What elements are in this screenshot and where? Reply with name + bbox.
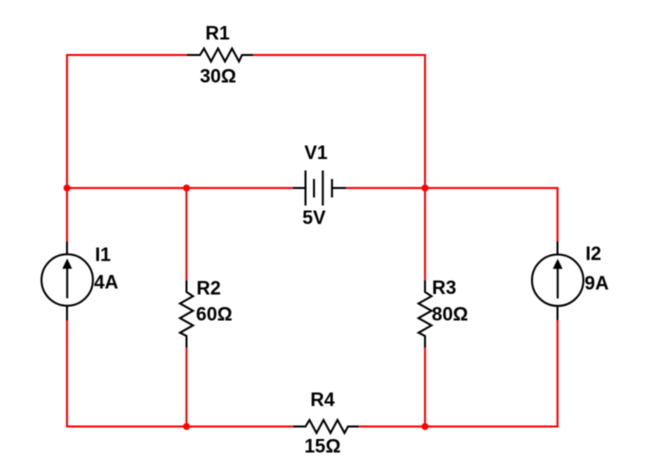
wire left vertical lower <box>66 320 68 428</box>
svg-text:R2: R2 <box>197 279 221 300</box>
wire bottom-left segment <box>66 426 294 428</box>
svg-text:80Ω: 80Ω <box>432 305 468 326</box>
current source I2 <box>532 242 583 321</box>
svg-text:R1: R1 <box>205 24 230 45</box>
resistor R1 <box>187 49 253 62</box>
wire inner-right vertical middle <box>424 188 426 282</box>
wire middle-left segment <box>66 187 294 189</box>
wire R2 branch lower <box>186 348 188 428</box>
resistor R2 <box>180 281 193 349</box>
battery V1 <box>293 171 346 206</box>
svg-text:30Ω: 30Ω <box>200 67 236 88</box>
svg-text:5V: 5V <box>302 208 326 229</box>
svg-text:R3: R3 <box>432 278 456 299</box>
wire bottom-right segment <box>359 426 559 428</box>
junction node R2 top <box>183 185 190 192</box>
svg-text:9A: 9A <box>585 274 610 295</box>
wire R2 branch upper <box>186 188 188 282</box>
junction node R3 top <box>422 185 429 192</box>
current source I1 <box>41 242 92 321</box>
wire left vertical upper <box>66 54 68 242</box>
svg-text:15Ω: 15Ω <box>304 437 340 458</box>
junction node R2 bottom <box>183 423 190 430</box>
wire top-right segment <box>252 54 426 56</box>
resistor R3 <box>419 281 432 349</box>
wire top-left segment <box>66 54 188 56</box>
junction node R3 bottom <box>422 423 429 430</box>
svg-text:I2: I2 <box>586 244 602 265</box>
junction node left-middle <box>64 185 71 192</box>
svg-text:V1: V1 <box>304 143 328 164</box>
svg-text:4A: 4A <box>94 273 119 294</box>
wire inner-right vertical upper <box>424 54 426 188</box>
svg-text:R4: R4 <box>310 390 335 411</box>
wire far-right vertical upper <box>557 187 559 242</box>
wire inner-right vertical lower <box>424 348 426 428</box>
svg-text:I1: I1 <box>95 245 111 266</box>
svg-text:60Ω: 60Ω <box>196 305 232 326</box>
resistor R4 <box>293 420 359 433</box>
wire middle-right segment <box>346 187 559 189</box>
wire far-right vertical lower <box>557 320 559 428</box>
